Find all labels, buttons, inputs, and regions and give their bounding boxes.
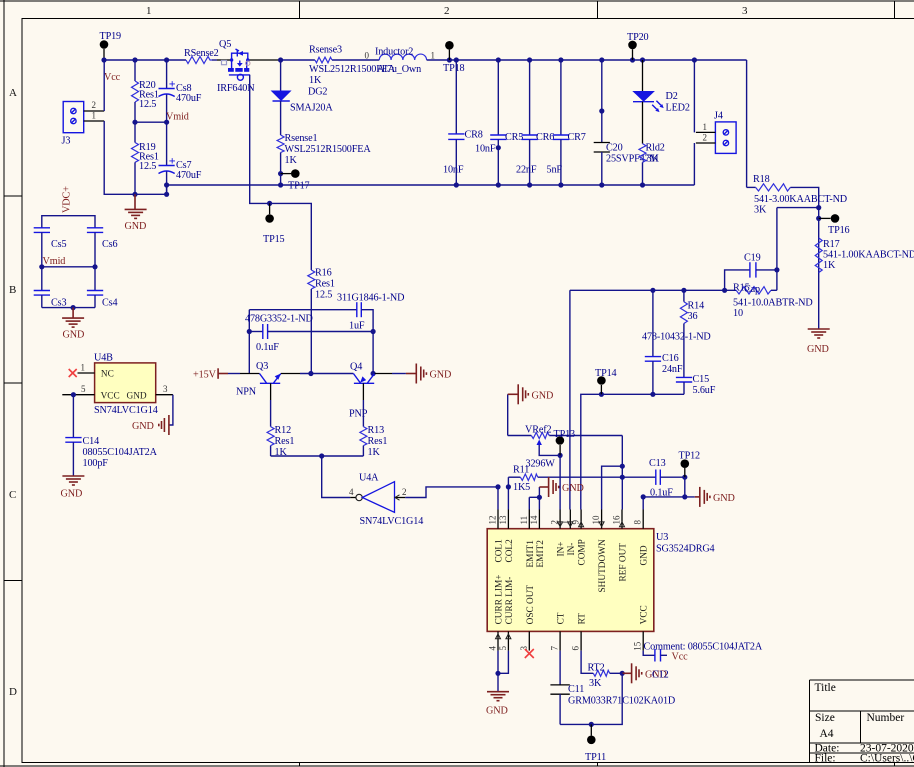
svg-text:DG2: DG2 xyxy=(308,87,327,98)
capacitor C 1uF 311G1846-1-ND xyxy=(249,293,404,377)
capacitor C12 Vcc xyxy=(643,642,763,663)
diode D2 LED xyxy=(632,60,690,114)
test point TP13 xyxy=(554,429,576,458)
svg-text:10nF: 10nF xyxy=(443,165,464,176)
svg-text:SG3524DRG4: SG3524DRG4 xyxy=(656,544,715,555)
svg-text:2: 2 xyxy=(703,132,708,142)
svg-text:J4: J4 xyxy=(714,111,723,122)
resistor Rsense1 xyxy=(277,101,371,185)
svg-text:Vmid: Vmid xyxy=(43,256,66,267)
svg-text:CR7: CR7 xyxy=(568,132,586,143)
wire C13 to GND rail xyxy=(641,477,695,509)
resistor R12 xyxy=(267,400,294,458)
svg-text:Rsense3: Rsense3 xyxy=(309,45,342,56)
junction dots top rail xyxy=(101,57,697,62)
svg-text:3: 3 xyxy=(742,5,748,17)
wire R18 node to C19 riser xyxy=(774,208,818,291)
svg-text:08055C104JAT2A: 08055C104JAT2A xyxy=(83,447,158,458)
svg-text:GND: GND xyxy=(127,392,147,402)
wire J4 pin2 down xyxy=(693,143,695,185)
pin U4B 1 no-connect xyxy=(69,363,95,378)
svg-text:0.1uF: 0.1uF xyxy=(256,342,279,353)
wire SHUTDOWN link xyxy=(602,466,623,509)
capacitor C11 xyxy=(550,651,675,725)
inductor Inductor2 xyxy=(365,47,436,76)
svg-text:Comment: 08055C104JAT2A: Comment: 08055C104JAT2A xyxy=(644,642,763,653)
IC U4B xyxy=(94,353,158,417)
svg-text:GND: GND xyxy=(132,421,154,432)
wire U4A input to U3 xyxy=(405,487,498,498)
svg-text:SN74LVC1G14: SN74LVC1G14 xyxy=(94,405,158,416)
svg-text:C11: C11 xyxy=(568,684,584,695)
svg-text:10: 10 xyxy=(733,308,743,319)
ground GND5 (pins45) xyxy=(486,692,509,717)
ground GND1 xyxy=(125,194,147,232)
svg-text:Vmid: Vmid xyxy=(166,112,189,123)
wire J4 pin1 up xyxy=(693,60,695,132)
transistor Q4 xyxy=(349,362,392,420)
svg-text:1: 1 xyxy=(431,51,436,61)
svg-text:9: 9 xyxy=(571,520,581,525)
svg-text:1K: 1K xyxy=(823,260,836,271)
test point TP11 xyxy=(585,724,606,763)
svg-text:R11: R11 xyxy=(513,465,529,476)
wire J3 pin1 down xyxy=(104,121,166,194)
svg-text:NPN: NPN xyxy=(236,387,257,398)
svg-text:Q3: Q3 xyxy=(256,361,268,372)
svg-text:CURR LIM+: CURR LIM+ xyxy=(495,574,505,624)
svg-text:3: 3 xyxy=(519,646,529,651)
capacitor Cs5 Cs6 block node VDC+ xyxy=(42,186,95,228)
wire Vcc top rail xyxy=(104,59,747,61)
svg-text:J3: J3 xyxy=(62,136,71,147)
power port GND (Q4) xyxy=(406,364,451,384)
svg-text:12.5: 12.5 xyxy=(139,99,156,110)
test point TP16 xyxy=(819,214,850,236)
svg-text:12: 12 xyxy=(488,516,498,525)
capacitor CR8 xyxy=(443,60,483,185)
svg-text:TP12: TP12 xyxy=(679,451,701,462)
svg-text:CR5: CR5 xyxy=(505,132,523,143)
power port +15V xyxy=(193,368,240,380)
resistor R14 xyxy=(642,290,711,377)
capacitor C13 xyxy=(622,458,685,499)
svg-text:+: + xyxy=(169,154,176,168)
svg-text:EMIT2: EMIT2 xyxy=(536,540,546,568)
IC U3 SG3524DRG4 xyxy=(487,529,714,632)
svg-text:Q4: Q4 xyxy=(350,362,362,373)
svg-text:541-1.00KAABCT-ND: 541-1.00KAABCT-ND xyxy=(823,250,914,261)
test point TP12 xyxy=(679,451,701,480)
svg-text:5.6uF: 5.6uF xyxy=(693,385,716,396)
wire Q5 pin segments (black) xyxy=(217,59,281,61)
svg-text:GND: GND xyxy=(807,344,829,355)
diode DG2 xyxy=(271,60,334,114)
svg-text:TP18: TP18 xyxy=(443,63,465,74)
svg-text:SN74LVC1G14: SN74LVC1G14 xyxy=(360,516,424,527)
capacitor CR5 xyxy=(475,60,523,185)
svg-text:16: 16 xyxy=(612,515,622,525)
wire IN+ column xyxy=(559,455,561,509)
svg-text:U3: U3 xyxy=(656,532,668,543)
wire node Vmid xyxy=(132,112,188,125)
wire node Vmid2 xyxy=(39,256,97,269)
svg-text:0: 0 xyxy=(365,51,370,61)
resistor Rsense3 xyxy=(309,45,396,87)
connector J4 xyxy=(696,111,736,154)
svg-text:3K: 3K xyxy=(754,205,767,216)
svg-text:File:: File: xyxy=(815,753,836,765)
svg-text:Size: Size xyxy=(815,712,835,724)
svg-text:8: 8 xyxy=(633,520,643,525)
svg-text:COL2: COL2 xyxy=(505,539,515,563)
wire TP14 rail xyxy=(581,392,684,510)
power port GND (EMIT) xyxy=(539,477,583,497)
svg-text:IN+: IN+ xyxy=(557,541,567,556)
svg-text:Vcc: Vcc xyxy=(104,72,121,83)
pin 10 SHUTDOWN xyxy=(591,510,608,593)
ground GND4 (R17) xyxy=(807,329,830,355)
pin U4B 5 xyxy=(62,384,94,397)
svg-text:12.5: 12.5 xyxy=(315,290,332,301)
svg-text:GND: GND xyxy=(640,545,650,565)
svg-text:REF OUT: REF OUT xyxy=(619,543,629,582)
svg-text:1: 1 xyxy=(92,110,97,120)
svg-text:GND: GND xyxy=(61,489,83,500)
wire top rail right corner down xyxy=(746,60,748,187)
svg-text:541-3.00KAABCT-ND: 541-3.00KAABCT-ND xyxy=(754,194,847,205)
test point TP18 xyxy=(443,41,465,74)
svg-text:Res1: Res1 xyxy=(368,436,388,447)
ground GND2 xyxy=(62,308,84,341)
svg-text:GND: GND xyxy=(713,493,735,504)
svg-text:TP17: TP17 xyxy=(288,181,310,192)
svg-text:1K: 1K xyxy=(309,75,322,86)
svg-text:C15: C15 xyxy=(693,374,710,385)
wire Q4 to GND xyxy=(392,373,406,375)
svg-text:6: 6 xyxy=(571,646,581,651)
svg-text:U4B: U4B xyxy=(94,353,113,364)
svg-text:1: 1 xyxy=(703,122,708,132)
svg-text:Al7u_Own: Al7u_Own xyxy=(377,64,421,75)
svg-text:U4A: U4A xyxy=(359,473,379,484)
svg-text:1K: 1K xyxy=(368,447,381,458)
svg-text:RT: RT xyxy=(578,613,588,625)
svg-text:GND: GND xyxy=(562,483,584,494)
svg-text:R13: R13 xyxy=(368,425,385,436)
svg-text:B: B xyxy=(9,284,16,296)
potentiometer VRef2 xyxy=(508,425,623,470)
svg-text:COL1: COL1 xyxy=(495,539,505,563)
capacitor Cs8 xyxy=(159,60,202,122)
resistor R19 xyxy=(132,122,159,194)
svg-text:C: C xyxy=(9,489,16,501)
svg-text:2: 2 xyxy=(444,5,450,17)
svg-text:Q5: Q5 xyxy=(219,39,231,50)
svg-text:TP16: TP16 xyxy=(828,225,850,236)
wire gnd rail left xyxy=(132,182,169,197)
svg-text:C20: C20 xyxy=(606,143,623,154)
svg-text:+: + xyxy=(169,77,176,91)
resistor R16 xyxy=(308,268,335,374)
svg-text:VCC: VCC xyxy=(640,605,650,624)
svg-text:LED2: LED2 xyxy=(666,103,690,114)
svg-text:Cs3: Cs3 xyxy=(51,298,66,309)
wire VRef2 right to REF OUT column xyxy=(620,436,625,510)
wire Q5 gate to R16 xyxy=(250,75,312,270)
svg-text:NC: NC xyxy=(101,370,114,380)
svg-text:470uF: 470uF xyxy=(176,170,202,181)
svg-text:100pF: 100pF xyxy=(83,458,109,469)
pin 4 CURR LIM+ xyxy=(488,574,505,650)
capacitor C19 xyxy=(725,253,777,291)
svg-text:R12: R12 xyxy=(275,425,292,436)
test point TP14 xyxy=(595,368,617,394)
pin U4B 3 to GND xyxy=(156,384,173,425)
inverter U4A xyxy=(349,473,423,528)
svg-text:5: 5 xyxy=(81,384,86,394)
svg-text:Cap: Cap xyxy=(744,284,760,295)
wire Cs bottom xyxy=(42,305,95,310)
svg-text:CR6: CR6 xyxy=(536,132,554,143)
svg-text:IN-: IN- xyxy=(567,543,577,556)
svg-text:4: 4 xyxy=(488,646,498,651)
svg-text:VCC: VCC xyxy=(101,392,120,402)
svg-text:10nF: 10nF xyxy=(475,144,496,155)
svg-text:R17: R17 xyxy=(823,239,840,250)
svg-text:A: A xyxy=(9,87,17,99)
svg-text:COMP: COMP xyxy=(578,539,588,565)
svg-text:311G1846-1-ND: 311G1846-1-ND xyxy=(337,293,404,304)
wire EMIT1 EMIT2 tie xyxy=(529,487,542,510)
pin 5 CURR LIM- xyxy=(498,577,515,651)
svg-text:CURR LIM-: CURR LIM- xyxy=(505,577,515,625)
resistor R17 xyxy=(815,238,914,273)
svg-text:22nF: 22nF xyxy=(516,165,537,176)
pin 14 EMIT2 xyxy=(529,510,546,568)
svg-text:3: 3 xyxy=(163,384,168,394)
svg-text:Rsense1: Rsense1 xyxy=(285,133,318,144)
svg-text:TP11: TP11 xyxy=(585,752,606,763)
test point TP17 xyxy=(278,169,310,191)
svg-text:GND: GND xyxy=(532,391,554,402)
svg-text:EMIT1: EMIT1 xyxy=(526,540,536,568)
svg-text:TP15: TP15 xyxy=(263,234,285,245)
capacitor Cs6 xyxy=(87,228,118,267)
svg-text:TP20: TP20 xyxy=(627,32,649,43)
transistor Q3 xyxy=(236,361,300,400)
svg-text:1: 1 xyxy=(81,363,86,373)
svg-text:C19: C19 xyxy=(744,253,761,264)
capacitor C16 xyxy=(645,290,683,394)
svg-text:SMAJ20A: SMAJ20A xyxy=(290,103,333,114)
svg-text:1: 1 xyxy=(146,5,152,17)
capacitor C 0.1uF 478G3352-1-ND xyxy=(245,310,373,373)
resistor R11 xyxy=(508,465,622,494)
svg-text:C:\Users\..\C1: C:\Users\..\C1 xyxy=(860,753,914,765)
pin 9 COMP xyxy=(571,510,588,566)
capacitor C14 xyxy=(65,395,157,476)
svg-text:GND: GND xyxy=(486,706,508,717)
svg-text:TP14: TP14 xyxy=(595,368,617,379)
wire pins 4 5 to GND xyxy=(495,651,508,692)
pin 3 OSC OUT no-connect xyxy=(519,585,536,658)
resistor Rld2 xyxy=(639,102,665,185)
pin 16 REF OUT xyxy=(612,510,629,582)
svg-text:+15V: +15V xyxy=(193,370,217,381)
svg-text:R16: R16 xyxy=(315,268,332,279)
svg-text:3296W: 3296W xyxy=(526,459,556,470)
svg-text:2: 2 xyxy=(402,487,407,497)
capacitor C20 xyxy=(594,60,659,185)
svg-text:Res1: Res1 xyxy=(315,279,335,290)
svg-text:Inductor2: Inductor2 xyxy=(375,47,413,58)
svg-text:Vcc: Vcc xyxy=(672,652,689,663)
svg-text:1K5: 1K5 xyxy=(513,482,530,493)
test point TP20 xyxy=(627,32,649,60)
svg-text:14: 14 xyxy=(529,515,539,525)
resistor RSense2 xyxy=(184,48,219,64)
svg-text:PNP: PNP xyxy=(349,409,368,420)
svg-text:Res1: Res1 xyxy=(275,436,295,447)
pin 8 GND xyxy=(633,510,650,566)
capacitor C15 xyxy=(676,374,716,396)
svg-text:Rld2: Rld2 xyxy=(646,143,665,154)
resistor RT2 xyxy=(581,651,622,689)
svg-text:1K: 1K xyxy=(285,155,298,166)
svg-text:C16: C16 xyxy=(662,353,679,364)
pin 12 COL1 xyxy=(488,510,505,563)
svg-text:CT: CT xyxy=(557,612,567,624)
svg-text:VRef2: VRef2 xyxy=(525,425,551,436)
pin 11 EMIT1 xyxy=(519,510,536,568)
svg-text:VDC+: VDC+ xyxy=(62,186,73,213)
wire Q3 emitter rail xyxy=(300,371,353,376)
svg-text:CR8: CR8 xyxy=(465,130,483,141)
pin 7 CT xyxy=(550,612,567,650)
svg-text:11: 11 xyxy=(519,516,529,525)
capacitor Cs7 xyxy=(159,122,202,194)
junction R18 node xyxy=(816,205,821,221)
wire bottom rail xyxy=(167,182,695,187)
test point TP15 xyxy=(263,203,285,245)
capacitor Cs5 xyxy=(34,228,67,267)
pin 6 RT xyxy=(571,613,588,651)
svg-text:OSC OUT: OSC OUT xyxy=(526,585,536,625)
capacitor CR6 xyxy=(516,60,554,185)
power port GND (U4B) xyxy=(132,415,169,435)
svg-text:1uF: 1uF xyxy=(349,321,365,332)
svg-text:36: 36 xyxy=(688,311,698,322)
pin 15 VCC xyxy=(633,605,650,651)
wire J3 pin2 to Vcc xyxy=(103,60,105,111)
resistor R15 xyxy=(570,283,813,320)
svg-text:C14: C14 xyxy=(83,436,100,447)
wire COL1 COL2 node xyxy=(495,484,511,509)
svg-text:GND: GND xyxy=(125,221,147,232)
svg-text:13: 13 xyxy=(498,515,508,525)
svg-text:WSL2512R1500FEA: WSL2512R1500FEA xyxy=(285,144,372,155)
svg-text:5: 5 xyxy=(498,646,508,651)
svg-text:Cs6: Cs6 xyxy=(102,239,117,250)
svg-text:4: 4 xyxy=(349,487,354,497)
svg-text:R14: R14 xyxy=(688,301,705,312)
svg-text:RT2: RT2 xyxy=(588,663,605,674)
svg-text:D: D xyxy=(9,686,17,698)
capacitor Cs3 xyxy=(34,267,67,309)
pin 1 IN- xyxy=(560,510,577,556)
svg-text:Cs4: Cs4 xyxy=(102,298,117,309)
wire R12 R13 to U4A xyxy=(271,453,364,497)
svg-text:3K: 3K xyxy=(589,678,602,689)
svg-text:A4: A4 xyxy=(820,728,834,740)
svg-text:TP13: TP13 xyxy=(554,429,576,440)
svg-text:15: 15 xyxy=(633,641,643,651)
power port GND (C13) xyxy=(695,487,735,507)
svg-text:5nF: 5nF xyxy=(547,165,563,176)
svg-text:D2: D2 xyxy=(666,91,678,102)
svg-text:12.5: 12.5 xyxy=(139,161,156,172)
svg-text:24nF: 24nF xyxy=(662,364,683,375)
svg-text:Number: Number xyxy=(867,712,905,724)
svg-text:Title: Title xyxy=(815,682,836,694)
svg-text:541-10.0ABTR-ND: 541-10.0ABTR-ND xyxy=(733,298,813,309)
svg-text:TP19: TP19 xyxy=(100,31,122,42)
svg-text:Cs5: Cs5 xyxy=(51,239,66,250)
connector J3 xyxy=(62,100,105,147)
svg-text:3K: 3K xyxy=(647,154,660,165)
svg-text:GND: GND xyxy=(63,330,85,341)
wire IN- column xyxy=(570,288,687,510)
resistor R18 xyxy=(747,174,847,329)
svg-text:C13: C13 xyxy=(649,458,666,469)
svg-text:SHUTDOWN: SHUTDOWN xyxy=(598,539,608,592)
svg-text:478G3352-1-ND: 478G3352-1-ND xyxy=(245,314,313,325)
svg-text:RSense2: RSense2 xyxy=(184,48,219,59)
power port GND (RT2) xyxy=(620,663,669,683)
svg-text:470uF: 470uF xyxy=(176,93,202,104)
svg-text:2: 2 xyxy=(92,100,97,110)
svg-text:R18: R18 xyxy=(753,174,770,185)
power port GND (VRef2) xyxy=(508,384,554,435)
wire RT2 to C11 bottom xyxy=(560,673,622,727)
svg-text:C12: C12 xyxy=(652,670,669,681)
test point TP19 xyxy=(100,31,122,60)
resistor R13 xyxy=(360,400,387,458)
capacitor CR7 xyxy=(547,60,586,185)
capacitor Cs4 xyxy=(87,267,118,309)
ground GND3 (C14) xyxy=(61,476,85,500)
svg-text:7: 7 xyxy=(550,646,560,651)
pin 13 COL2 xyxy=(498,510,515,563)
pin 2 IN+ xyxy=(550,510,567,557)
transistor Q5 xyxy=(217,39,255,94)
resistor R20 xyxy=(132,60,159,122)
svg-text:GND: GND xyxy=(430,370,452,381)
